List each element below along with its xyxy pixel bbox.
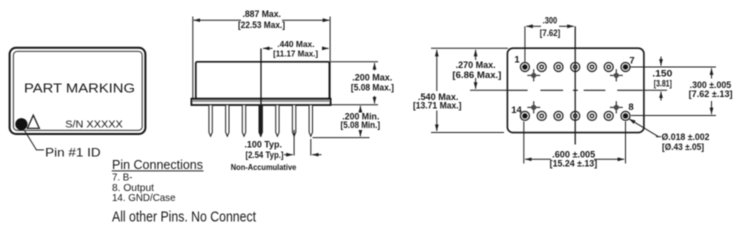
- pin B: [226, 105, 229, 136]
- svg-text:1: 1: [514, 54, 520, 65]
- svg-text:Ø.018 ±.002: Ø.018 ±.002: [662, 132, 710, 142]
- ext top edge left: [431, 47, 508, 49]
- svg-text:Pin #1 ID: Pin #1 ID: [45, 146, 100, 159]
- package outline: [507, 48, 644, 132]
- dim .887 ext line right: [329, 17, 331, 99]
- dim .887 ext line left: [192, 17, 194, 99]
- svg-text:[13.71 Max.]: [13.71 Max.]: [413, 101, 462, 111]
- svg-text:Non-Accumulative: Non-Accumulative: [231, 162, 297, 172]
- pin 6: [604, 63, 613, 72]
- pin C: [242, 105, 245, 136]
- leader to Pin #1 ID: [25, 131, 45, 150]
- pin 11: [571, 111, 580, 120]
- ext centerline right: [644, 89, 667, 91]
- package outline outer: [10, 48, 146, 134]
- ext pin G down: [310, 139, 312, 156]
- svg-text:[6.86 Max.]: [6.86 Max.]: [452, 70, 501, 80]
- pin 13: [537, 111, 546, 120]
- svg-text:All other Pins. No Connect: All other Pins. No Connect: [112, 209, 256, 225]
- svg-text:8: 8: [628, 102, 633, 113]
- pins (7): [209, 105, 313, 136]
- pin 8: [621, 111, 630, 120]
- pin 3: [554, 63, 563, 72]
- crosshair near pin 1: [527, 69, 540, 81]
- dim .270 Max: [475, 50, 477, 60]
- svg-text:.440 Max.: .440 Max.: [277, 39, 314, 49]
- svg-text:[22.53 Max.]: [22.53 Max.]: [238, 20, 285, 30]
- ext pin7 row right: [631, 66, 717, 68]
- ext pin F down: [293, 130, 295, 156]
- pin A: [209, 105, 212, 136]
- svg-text:S/N XXXXX: S/N XXXXX: [65, 119, 123, 130]
- base plate: [191, 99, 330, 105]
- pin G: [309, 105, 312, 136]
- ext pin14 down: [523, 122, 525, 164]
- pin 7: [621, 63, 630, 72]
- ext pin bottom: [313, 137, 370, 139]
- svg-text:[5.08 Min.]: [5.08 Min.]: [341, 120, 381, 130]
- ext pin8 row right: [631, 115, 716, 117]
- pin 1: [520, 63, 529, 72]
- dim .887 line with arrows: [194, 19, 241, 21]
- svg-text:14. GND/Case: 14. GND/Case: [112, 193, 176, 204]
- pin 14: [520, 111, 529, 120]
- svg-text:.887 Max.: .887 Max.: [242, 9, 281, 19]
- vertical center column line: [574, 26, 576, 144]
- dashed horizontal centerline: [508, 89, 643, 91]
- dim .540 Max: [436, 50, 438, 91]
- crosshair near pin 14: [527, 101, 540, 113]
- dim .440 line: [263, 47, 273, 49]
- ext base bottom right: [331, 104, 378, 106]
- svg-text:.270 Max.: .270 Max.: [456, 60, 496, 70]
- svg-text:[3.81]: [3.81]: [654, 79, 672, 89]
- pin 10: [588, 111, 597, 120]
- dim .300 top: [526, 25, 541, 27]
- pin F: [292, 105, 295, 136]
- crosshair near pin 8: [610, 101, 623, 113]
- pin 2: [537, 63, 546, 72]
- svg-text:7: 7: [629, 55, 634, 66]
- svg-text:.300: .300: [543, 16, 558, 26]
- pin 9: [604, 111, 613, 120]
- pin 12: [554, 111, 563, 120]
- svg-text:[11.17 Max.]: [11.17 Max.]: [273, 49, 318, 59]
- pin E: [276, 105, 279, 136]
- svg-text:[7.62 ±.13]: [7.62 ±.13]: [689, 89, 733, 99]
- svg-text:Pin Connections: Pin Connections: [112, 157, 203, 172]
- pin 4: [571, 63, 580, 72]
- pin circles top row: [520, 63, 630, 72]
- svg-text:.150: .150: [652, 68, 672, 79]
- package outline inner: [13, 51, 142, 130]
- base plate inner seam: [192, 100, 330, 102]
- ext pin1 column: [524, 26, 526, 62]
- pin 1 ID triangle: [27, 115, 39, 128]
- crosshair near pin 7: [610, 69, 623, 81]
- svg-text:[15.24 ±.13]: [15.24 ±.13]: [550, 158, 598, 168]
- svg-text:.200 Max.: .200 Max.: [352, 72, 392, 82]
- svg-text:[7.62]: [7.62]: [540, 28, 561, 38]
- ext bottom edge left: [431, 132, 504, 134]
- ext body top right: [331, 61, 378, 63]
- svg-text:PART MARKING: PART MARKING: [24, 81, 135, 96]
- svg-text:.100 Typ.: .100 Typ.: [244, 139, 282, 149]
- ext pin8 down: [625, 122, 627, 164]
- svg-text:[Ø.43 ±.05]: [Ø.43 ±.05]: [662, 142, 704, 152]
- pin circles bottom row: [520, 111, 630, 120]
- pin 5: [588, 63, 597, 72]
- body: [196, 62, 330, 99]
- dim .200 Min right: [359, 106, 361, 112]
- svg-text:14: 14: [511, 105, 522, 116]
- leader dia .018 from pin 8: [629, 119, 659, 137]
- svg-text:[2.54 Typ.]: [2.54 Typ.]: [246, 150, 284, 160]
- pin 1 ID dot: [15, 118, 27, 130]
- pin D dark overlay: [259, 105, 262, 136]
- ext centerline left: [470, 89, 508, 91]
- center line over pin D: [260, 48, 262, 136]
- pin D (center): [259, 105, 262, 136]
- svg-text:[5.08 Max.]: [5.08 Max.]: [351, 82, 394, 92]
